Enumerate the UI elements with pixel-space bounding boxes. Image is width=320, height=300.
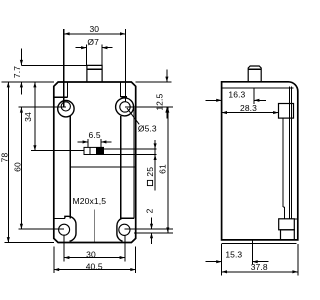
dimension 30 bottom [64, 257, 125, 259]
dimension 40.5 [54, 269, 136, 271]
svg-text:M20x1,5: M20x1,5 [72, 196, 106, 206]
ext line side bottom left [221, 244, 223, 275]
side view step line [283, 206, 285, 208]
ext line plunger dia left [86, 44, 88, 65]
side view bottom lug top line [294, 218, 297, 220]
head edge right [120, 82, 122, 97]
dimension 7.7 [20, 49, 22, 66]
svg-text:6.5: 6.5 [89, 130, 101, 140]
dimension 30 top [64, 33, 125, 35]
side view bottom plate line [222, 242, 297, 244]
dimension diameter 7 [76, 47, 87, 49]
bottom-left lug top edge [54, 217, 65, 219]
dimension 6.5 [78, 141, 89, 143]
svg-text:Ø5.3: Ø5.3 [138, 123, 157, 133]
ext line top width left [63, 29, 65, 107]
ext line slot bottom right [104, 154, 157, 156]
dimension 37.8 [222, 271, 298, 273]
side view cover line inner lower [283, 207, 285, 219]
ext line overall width right [135, 247, 137, 274]
side view body outline [222, 82, 298, 240]
ext line slot level left [31, 150, 84, 152]
side view plunger chamfer line [248, 68, 261, 70]
ext line top hole center left [19, 106, 66, 108]
svg-text:60: 60 [12, 162, 22, 172]
dimension 28.3 [222, 112, 279, 114]
center slot filled cell [97, 147, 104, 154]
ext line top width right [124, 29, 126, 102]
head notch right [121, 96, 128, 98]
dimension 61 [167, 107, 169, 233]
mounting hole top-right outer [116, 98, 134, 116]
svg-text:25: 25 [145, 167, 155, 177]
side view top lug block [279, 104, 294, 119]
svg-text:7.7: 7.7 [12, 66, 22, 78]
ext line top hole center right [125, 106, 173, 108]
svg-text:15.3: 15.3 [225, 249, 242, 259]
ext line body top left [2, 81, 54, 83]
ext line plunger collar left [21, 64, 87, 66]
ext line bottom hole center left [19, 228, 64, 230]
plunger axis stub [253, 88, 255, 104]
side view plunger [248, 66, 261, 82]
switch body outline (front view) [54, 82, 136, 243]
side view cover line outer a [289, 87, 291, 219]
svg-text:28.3: 28.3 [240, 103, 257, 113]
svg-text:78: 78 [0, 153, 9, 163]
dimension 34 [34, 82, 36, 151]
dimension 15.3 [206, 261, 222, 263]
ext line body top right [136, 81, 172, 83]
center slot divider b [96, 147, 98, 154]
bottom-right lug top edge [121, 217, 134, 219]
mounting hole bottom-left inner [59, 224, 70, 235]
side view bottom block lower [281, 230, 295, 240]
dimension 78 [7, 82, 9, 243]
svg-text:Ø7: Ø7 [87, 37, 99, 47]
ext line slot top right [104, 148, 157, 150]
ext line conduit axis right [134, 232, 173, 234]
body inner edge right [120, 116, 122, 218]
ext line plunger dia right [101, 44, 103, 65]
svg-text:16.3: 16.3 [228, 89, 245, 99]
dimension 2 [151, 218, 153, 230]
head edge left [67, 82, 69, 97]
svg-text:2: 2 [145, 208, 155, 213]
side view bottom block upper [279, 219, 295, 230]
ext line body bottom left [5, 242, 54, 244]
conduit axis stub [251, 240, 253, 265]
plunger (front view) [87, 65, 102, 82]
center slot divider a [89, 147, 91, 154]
bottom-left lug contour [65, 216, 76, 241]
mounting hole top-right inner [120, 102, 130, 112]
leader diameter 5.3 [127, 108, 139, 124]
bottom-right lug contour [117, 218, 123, 241]
svg-text:12.5: 12.5 [154, 94, 164, 111]
ext line slot width right [100, 139, 102, 148]
side view cover line inner [282, 118, 284, 207]
svg-text:37.8: 37.8 [251, 262, 268, 272]
mounting hole top-left outer [58, 101, 74, 117]
ext line overall width left [53, 247, 55, 274]
side view head seam [222, 87, 294, 89]
svg-text:34: 34 [23, 112, 33, 122]
mounting hole top-left inner [61, 102, 70, 111]
cover seam line [70, 166, 135, 168]
ext line side bottom right [297, 244, 299, 275]
ext line bottom holes right [124, 235, 126, 261]
dimension 60 [20, 107, 22, 229]
side view cover line outer b [291, 87, 293, 219]
ext line slot width left [87, 139, 89, 148]
dimension 16.3 [205, 99, 221, 101]
body inner edge left [69, 116, 71, 219]
svg-text:40.5: 40.5 [86, 261, 103, 271]
ext line bottom hole center right [125, 228, 173, 230]
svg-text:30: 30 [86, 249, 96, 259]
center slot outline [84, 147, 104, 154]
svg-text:61: 61 [158, 164, 168, 174]
plunger chamfer line [87, 68, 102, 70]
ext line bottom holes left [63, 235, 65, 261]
M20 leader line [94, 209, 96, 242]
dimension square 2.5 [154, 140, 156, 191]
svg-text:30: 30 [89, 24, 99, 34]
body inner edge right 2 [133, 108, 135, 219]
head notch left [54, 96, 68, 98]
dimension 12.5 [166, 70, 168, 83]
mounting hole bottom-right inner [119, 224, 130, 235]
